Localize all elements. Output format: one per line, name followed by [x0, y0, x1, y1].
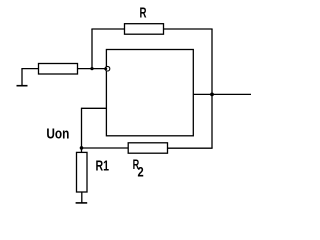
- wire: [81, 148, 83, 152]
- wire: [78, 68, 107, 70]
- resistor (input): [39, 64, 78, 75]
- wire: [21, 68, 38, 70]
- svg-text:R: R: [140, 5, 147, 22]
- resistor R2: [128, 143, 167, 153]
- svg-text:R1: R1: [96, 158, 110, 175]
- wire: [168, 147, 213, 149]
- resistor R: [125, 24, 164, 35]
- node junction: [90, 67, 93, 70]
- node at input terminal: [104, 67, 107, 70]
- ground: [17, 69, 28, 86]
- wire: [81, 147, 128, 149]
- wire: [164, 28, 213, 30]
- amplifier box U1: [106, 50, 193, 136]
- node junction (output): [210, 93, 214, 97]
- resistor R1: [77, 152, 88, 192]
- svg-text:2: 2: [138, 164, 144, 179]
- wire: [81, 108, 83, 148]
- input terminal circle: [105, 66, 110, 71]
- node junction: [80, 146, 84, 150]
- ground: [76, 202, 88, 204]
- wire: [82, 107, 107, 109]
- label R2: [133, 157, 144, 179]
- wire: [211, 29, 213, 148]
- wire: [91, 28, 124, 30]
- wire (output): [193, 93, 251, 95]
- svg-text:Uon: Uon: [46, 126, 69, 143]
- wire: [81, 192, 83, 203]
- wire: [91, 29, 93, 69]
